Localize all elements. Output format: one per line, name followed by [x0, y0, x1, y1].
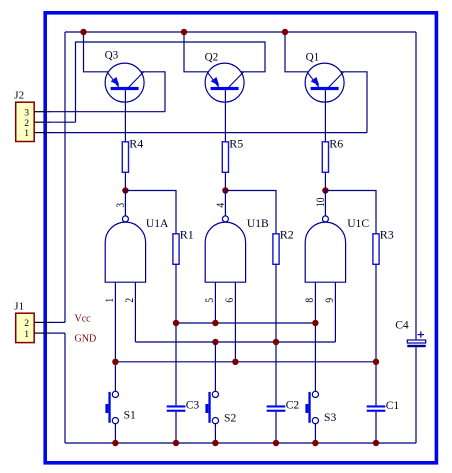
svg-text:3: 3	[24, 107, 29, 118]
svg-text:1: 1	[24, 329, 29, 340]
label Vcc	[75, 313, 92, 324]
wire Q3 base	[124, 90, 126, 142]
node line3 pin1	[112, 359, 118, 365]
resistor R4	[122, 142, 128, 173]
pin 9	[324, 298, 336, 303]
svg-text:S1: S1	[124, 408, 136, 421]
wire R2 down to C2	[275, 264, 277, 405]
wire node to R1	[125, 191, 176, 234]
svg-text:Vcc: Vcc	[75, 313, 92, 324]
wire J1 pin1 to GND edge	[50, 332, 65, 334]
label R5	[229, 136, 243, 150]
wire Q1 collector loop	[341, 72, 367, 133]
node line2 S2	[212, 339, 218, 345]
wire Vcc left edge	[64, 32, 66, 322]
node gate output R6	[322, 187, 328, 193]
pin 2 wire	[134, 282, 136, 342]
wire R6 to node	[324, 172, 326, 190]
wire S1 to GND	[114, 424, 116, 443]
svg-text:S2: S2	[224, 411, 236, 424]
wire J2 pin1 net	[50, 132, 367, 134]
node line3 pin6	[232, 359, 238, 365]
wire C3 to GND	[175, 412, 177, 443]
resistor R5	[222, 142, 228, 173]
wire Q1 base	[324, 90, 326, 142]
pin 9 wire	[334, 282, 336, 342]
wire R5 to node	[224, 172, 226, 190]
wire J2 pin3 net	[50, 111, 165, 113]
svg-text:2: 2	[24, 318, 29, 329]
svg-text:J1: J1	[14, 301, 24, 313]
resistor R2	[273, 234, 279, 264]
svg-text:C4: C4	[395, 319, 409, 332]
label R4	[129, 136, 143, 150]
pin 10	[316, 198, 328, 207]
wire GND left edge	[64, 333, 66, 443]
wire node to R3	[325, 191, 376, 234]
label J2	[14, 90, 24, 102]
op-amp U1A gate	[105, 216, 145, 282]
capacitor C2	[267, 405, 286, 411]
label Q1	[306, 51, 320, 63]
pin 6 wire	[234, 282, 236, 362]
switch S2	[205, 391, 218, 423]
pin 4	[216, 202, 228, 207]
svg-text:U1A: U1A	[146, 217, 169, 230]
wire Q2 emitter to Vcc	[184, 32, 208, 72]
svg-text:1: 1	[104, 298, 116, 303]
svg-text:R4: R4	[129, 136, 143, 150]
wire node to R2	[225, 191, 276, 234]
capacitor C1	[367, 405, 386, 411]
svg-text:J2: J2	[14, 90, 24, 102]
node line2 R2	[273, 339, 279, 345]
svg-text:S3: S3	[324, 411, 336, 424]
wire GND bottom rail	[65, 442, 416, 444]
svg-text:9: 9	[324, 298, 336, 303]
wire node to gate bubble 3	[324, 191, 326, 216]
wire J2 pin2 net	[50, 121, 76, 123]
svg-text:C3: C3	[186, 398, 200, 411]
transistor Q1	[305, 63, 344, 102]
node GND C2	[273, 440, 279, 446]
node gate output R4	[122, 187, 128, 193]
pin 1	[104, 298, 116, 303]
node GND S1	[112, 440, 118, 446]
pin 5 wire	[214, 282, 216, 323]
svg-text:R2: R2	[280, 227, 294, 241]
wire Q2 base	[224, 90, 226, 142]
label C1	[386, 399, 400, 412]
node line1 R1	[173, 320, 179, 326]
resistor R6	[322, 142, 328, 173]
node line1 pin8	[312, 320, 318, 326]
switch S3	[305, 391, 318, 423]
pin 6	[224, 298, 236, 303]
svg-text:C2: C2	[286, 398, 300, 411]
label C2	[286, 398, 300, 411]
label J1	[14, 301, 24, 313]
wire C2 to GND	[275, 412, 277, 443]
wire J1 pin2 to Vcc edge	[50, 321, 65, 323]
capacitor C4	[407, 331, 425, 347]
wire right edge lower (C4 to GND)	[415, 347, 417, 443]
wire R1 down to C3	[175, 264, 177, 405]
wire Vcc top rail	[65, 31, 416, 33]
svg-text:C1: C1	[386, 399, 400, 412]
pin 1 wire	[114, 282, 116, 391]
svg-text:6: 6	[224, 298, 236, 303]
wire R4 to node	[124, 172, 126, 190]
svg-text:GND: GND	[75, 334, 97, 345]
wire node to gate bubble 2	[224, 191, 226, 216]
svg-text:4: 4	[216, 202, 228, 207]
switch S1	[105, 391, 118, 423]
wire node to gate bubble 1	[124, 191, 126, 216]
svg-text:R5: R5	[229, 136, 243, 150]
wire Q1 emitter to Vcc	[285, 32, 308, 72]
node Vcc junction Q3	[80, 29, 86, 35]
node Vcc junction Q2	[181, 29, 187, 35]
wire net line3	[115, 361, 376, 363]
pin 8	[304, 298, 316, 303]
label U1A	[146, 217, 169, 230]
node GND S2	[212, 440, 218, 446]
pin 2	[124, 298, 136, 303]
wire Q3 collector loop	[141, 72, 165, 112]
svg-text:8: 8	[304, 298, 316, 303]
svg-text:U1B: U1B	[247, 217, 269, 230]
wire C1 to GND	[375, 412, 377, 443]
wire net line1	[176, 322, 315, 324]
svg-text:2: 2	[124, 298, 136, 303]
label U1B	[247, 217, 269, 230]
pin 8 wire	[314, 282, 316, 391]
node Vcc junction Q1	[282, 29, 288, 35]
label C4	[395, 319, 409, 332]
svg-text:R3: R3	[380, 227, 394, 241]
wire S2 to GND	[214, 424, 216, 443]
resistor R1	[173, 234, 179, 264]
svg-text:Q1: Q1	[306, 51, 320, 63]
pin 5	[204, 298, 216, 303]
wire R3 down to C1	[375, 264, 377, 405]
label S3	[324, 411, 336, 424]
wire S2 top link	[214, 342, 216, 391]
capacitor C3	[167, 405, 186, 411]
svg-text:Q2: Q2	[205, 51, 219, 63]
wire right edge upper (Vcc to C4)	[415, 32, 417, 340]
wire Q2 collector loop	[76, 42, 266, 122]
svg-text:R1: R1	[180, 227, 194, 241]
label R1	[180, 227, 194, 241]
label C3	[186, 398, 200, 411]
resistor R3	[373, 234, 379, 264]
label Q3	[105, 49, 119, 61]
svg-text:U1C: U1C	[347, 217, 369, 230]
svg-text:1: 1	[24, 128, 29, 139]
label S2	[224, 411, 236, 424]
svg-text:3: 3	[116, 203, 128, 208]
wire net line2	[135, 341, 335, 343]
op-amp U1C gate	[305, 216, 345, 282]
svg-text:5: 5	[204, 298, 216, 303]
svg-text:10: 10	[316, 198, 328, 207]
label R3	[380, 227, 394, 241]
svg-text:R6: R6	[329, 136, 343, 150]
pin 3	[116, 203, 128, 208]
node line1 pin5	[212, 320, 218, 326]
node gate output R5	[222, 187, 228, 193]
svg-text:2: 2	[24, 118, 29, 129]
label R6	[329, 136, 343, 150]
label GND	[75, 334, 97, 345]
label Q2	[205, 51, 219, 63]
node GND C3	[173, 440, 179, 446]
connector J2	[16, 102, 50, 141]
wire S3 to GND	[314, 424, 316, 443]
connector J1	[16, 313, 50, 342]
transistor Q2	[205, 63, 244, 102]
transistor Q3	[105, 63, 144, 102]
label S1	[124, 408, 136, 421]
node GND S3	[312, 440, 318, 446]
node GND C1	[373, 440, 379, 446]
node line3 R3	[373, 359, 379, 365]
label R2	[280, 227, 294, 241]
label U1C	[347, 217, 369, 230]
op-amp U1B gate	[205, 216, 245, 282]
wire Q3 emitter to Vcc	[84, 32, 109, 72]
svg-text:Q3: Q3	[105, 49, 119, 61]
